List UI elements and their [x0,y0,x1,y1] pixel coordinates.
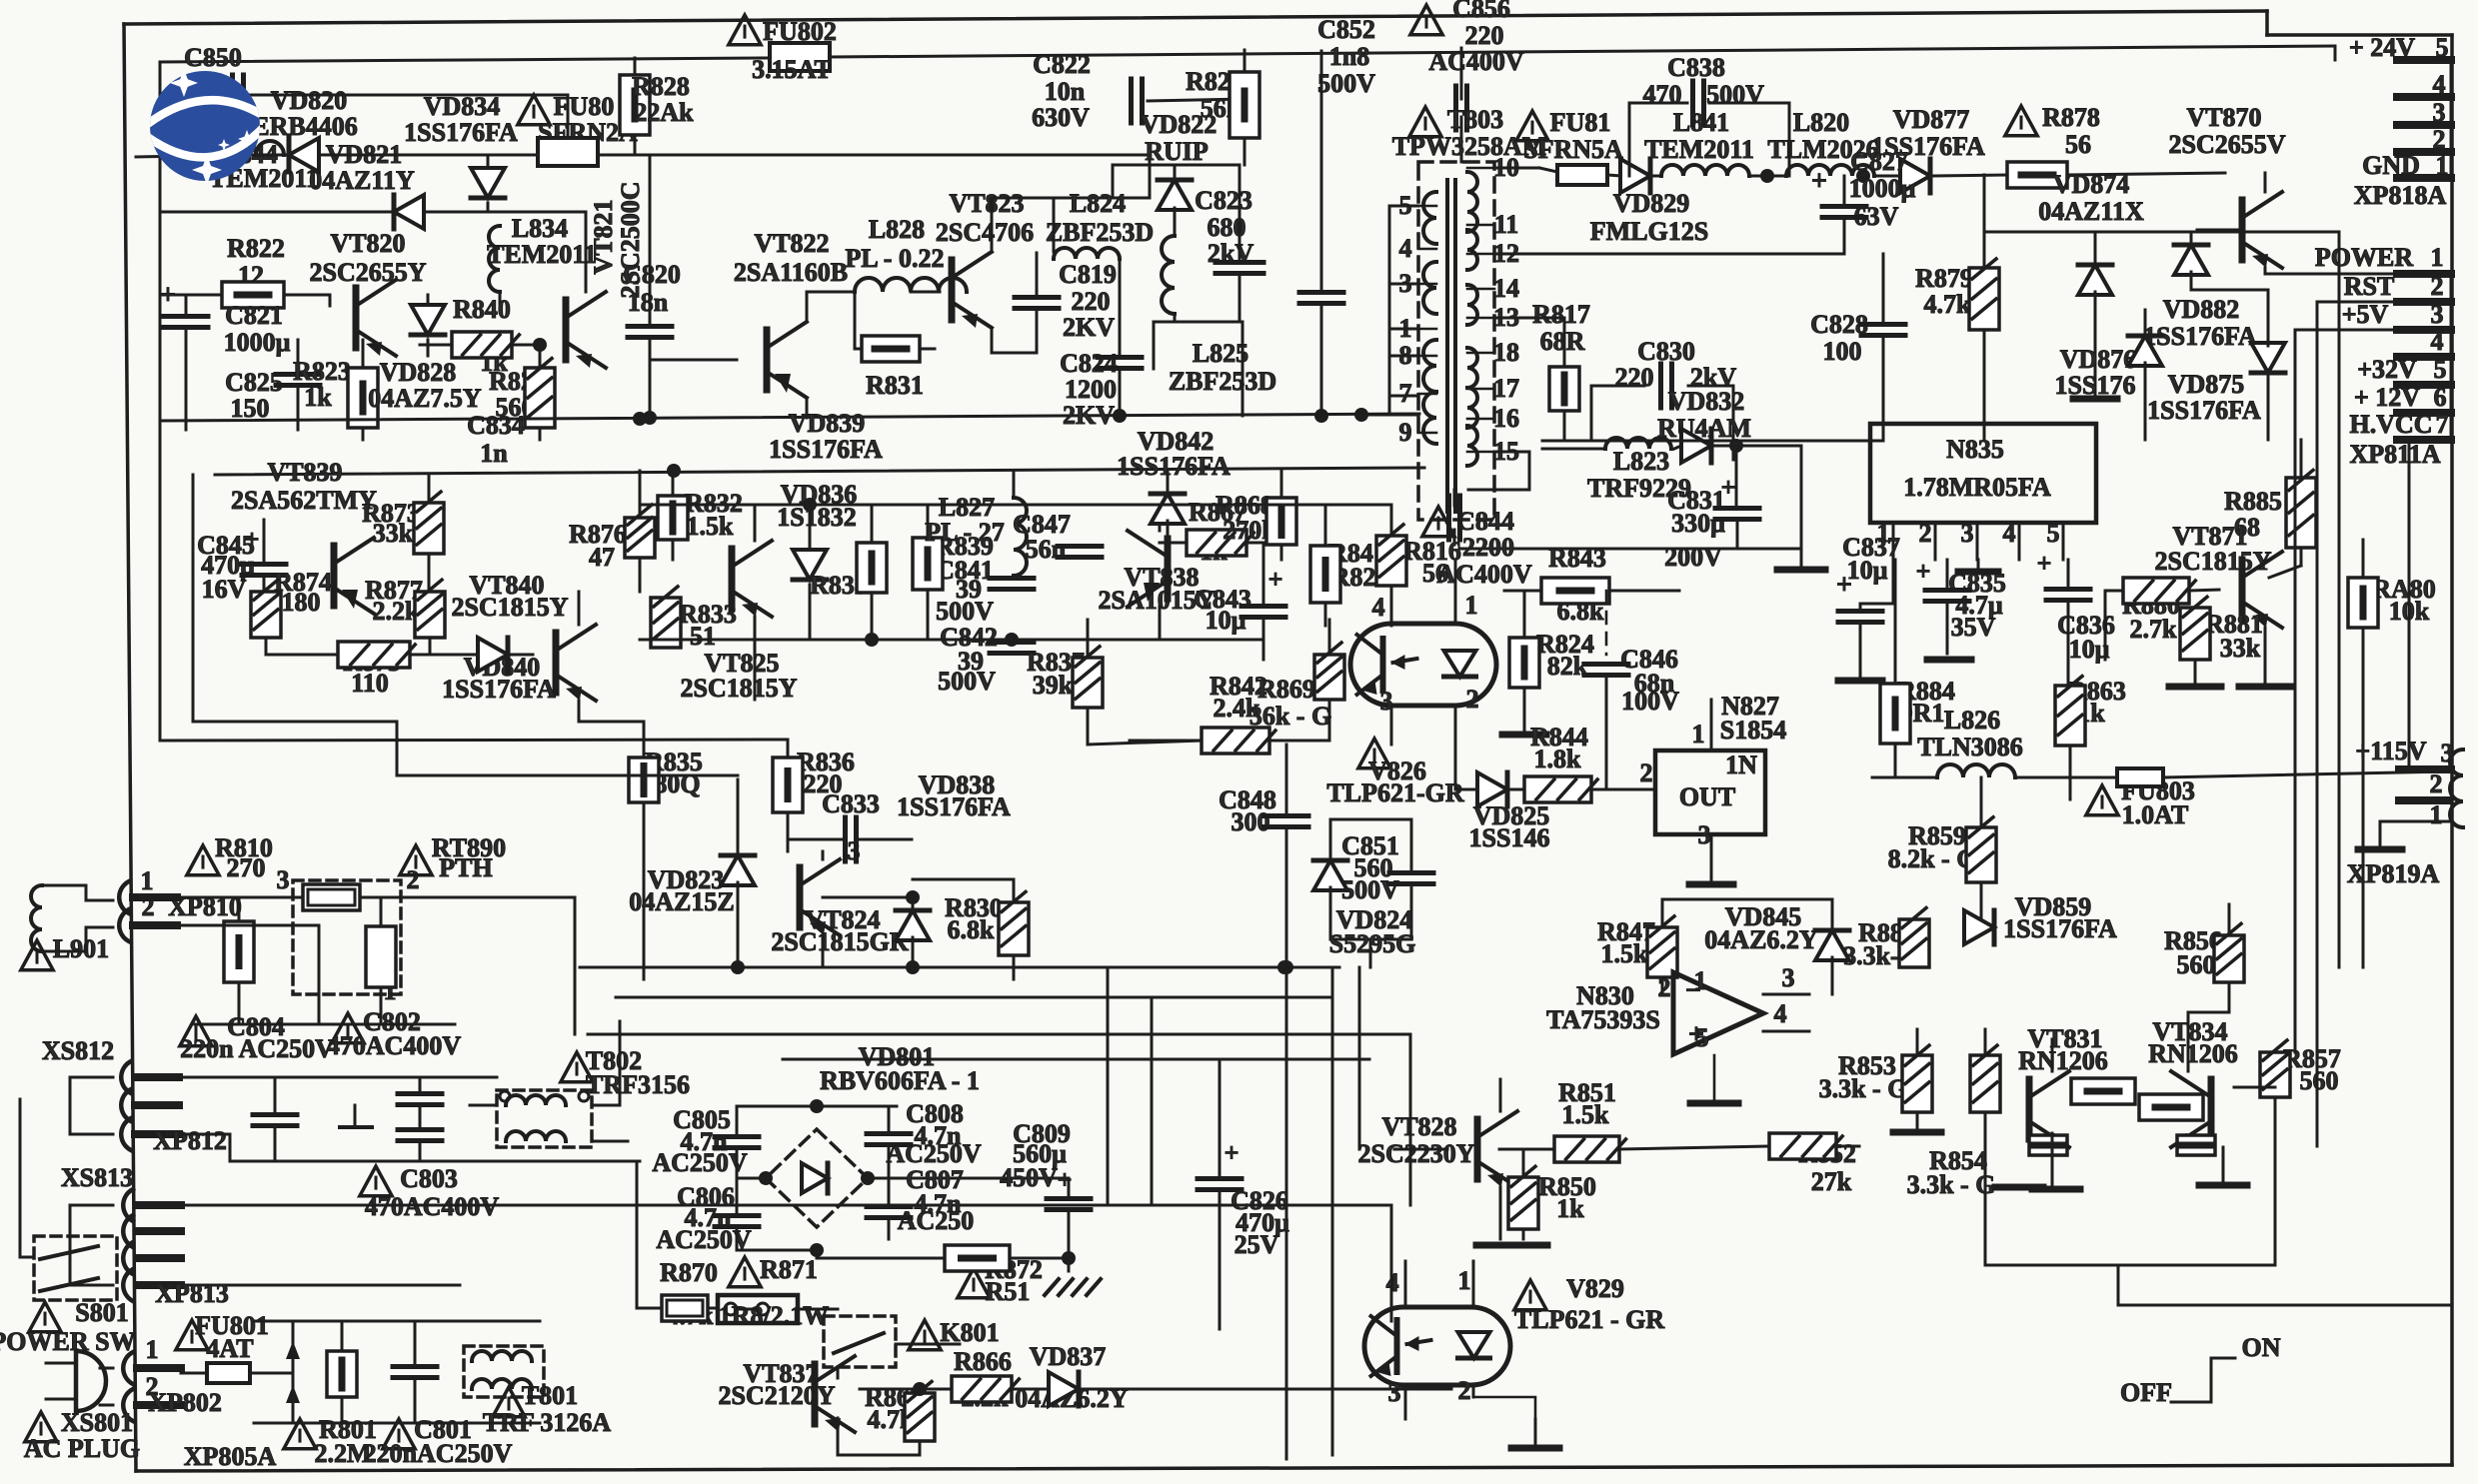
svg-text:4.7k: 4.7k [1924,290,1972,319]
svg-text:OFF: OFF [2120,1378,2172,1407]
svg-text:25V: 25V [1235,1230,1279,1259]
svg-text:1SS176FA: 1SS176FA [769,435,883,464]
svg-text:ON: ON [2242,1333,2281,1362]
svg-text:300: 300 [1232,807,1270,836]
svg-text:R51: R51 [986,1277,1031,1306]
svg-text:PL - 27: PL - 27 [925,518,1004,547]
svg-text:C821: C821 [225,301,283,330]
svg-text:3: 3 [1698,820,1711,849]
svg-text:VT822: VT822 [754,229,829,258]
svg-text:450V: 450V [1000,1163,1058,1192]
svg-text:TEM2011: TEM2011 [487,240,597,269]
svg-text:1.78MR05FA: 1.78MR05FA [1903,473,2051,502]
svg-text:500V: 500V [938,667,996,696]
svg-text:VD837: VD837 [1030,1342,1107,1371]
svg-text:1SS176FA: 1SS176FA [897,792,1011,821]
svg-text:TLP621 - GR: TLP621 - GR [1514,1305,1664,1334]
svg-text:270: 270 [227,853,266,882]
svg-text:4AT: 4AT [206,1334,253,1363]
svg-text:XS812: XS812 [42,1036,114,1065]
svg-text:1200: 1200 [1065,375,1117,404]
svg-text:VD875: VD875 [2168,370,2245,399]
svg-text:+: + [160,280,176,311]
svg-text:XP812: XP812 [153,1126,227,1155]
svg-text:C852: C852 [1317,15,1375,44]
svg-text:R840: R840 [453,295,511,324]
svg-text:C838: C838 [1667,53,1725,82]
svg-text:GND: GND [2362,151,2420,180]
svg-text:2SC2230Y: 2SC2230Y [1357,1139,1474,1168]
svg-text:1k: 1k [1556,1194,1584,1223]
svg-text:1SS176FA: 1SS176FA [404,118,518,147]
svg-text:1n8: 1n8 [1329,42,1369,71]
svg-text:17: 17 [1493,374,1519,403]
svg-text:7: 7 [1399,379,1412,408]
svg-text:2SC2655Y: 2SC2655Y [309,258,426,287]
svg-text:VD839: VD839 [789,409,866,438]
svg-text:11: 11 [1494,210,1519,239]
svg-text:18n: 18n [628,288,669,317]
svg-text:4: 4 [2433,70,2446,99]
svg-text:TEM2011: TEM2011 [1644,135,1754,164]
svg-text:C844: C844 [1456,507,1514,536]
svg-text:+: + [1268,565,1283,594]
svg-text:1: 1 [2431,243,2444,272]
svg-text:VT828: VT828 [1381,1112,1456,1141]
svg-text:VD832: VD832 [1668,387,1745,416]
svg-text:2SC2655V: 2SC2655V [2168,130,2285,159]
svg-text:10μ: 10μ [1847,556,1888,585]
svg-text:56: 56 [1422,559,1448,588]
svg-text:FU81: FU81 [1550,108,1611,137]
svg-text:TLP621-GR: TLP621-GR [1326,778,1463,807]
svg-text:L828: L828 [869,215,925,244]
svg-text:VD828: VD828 [380,358,457,387]
svg-text:3: 3 [1782,963,1795,992]
svg-text:220: 220 [1465,21,1504,50]
svg-text:500V: 500V [1341,875,1399,904]
svg-text:L824: L824 [1070,189,1126,218]
svg-text:C827: C827 [1850,147,1908,176]
svg-text:4: 4 [2431,327,2444,356]
svg-text:220: 220 [1072,287,1111,316]
svg-text:VD877: VD877 [1893,105,1970,134]
svg-text:C822: C822 [1033,50,1091,79]
svg-text:PTH: PTH [439,853,492,882]
svg-text:2: 2 [1640,758,1653,787]
svg-text:500V: 500V [936,597,994,626]
svg-text:+5V: +5V [2342,300,2389,329]
svg-text:VT821: VT821 [589,199,618,274]
svg-text:470AC400V: 470AC400V [327,1031,462,1060]
svg-text:R831: R831 [866,371,924,400]
svg-text:R823: R823 [293,357,351,386]
svg-text:VD829: VD829 [1613,189,1690,218]
svg-text:VD882: VD882 [2163,295,2240,324]
svg-text:FMLG12S: FMLG12S [1590,217,1708,246]
svg-text:S801: S801 [75,1298,128,1327]
svg-text:+ 12V: + 12V [2354,383,2420,412]
svg-text:3.3k - G: 3.3k - G [1907,1170,1996,1199]
svg-text:XP819A: XP819A [2347,859,2440,888]
svg-text:16V: 16V [202,575,247,604]
svg-text:14: 14 [1493,274,1519,303]
svg-text:560: 560 [2300,1066,2339,1095]
svg-text:04AZ11X: 04AZ11X [2038,197,2144,226]
svg-text:L834: L834 [512,214,568,243]
svg-text:C830: C830 [1637,337,1695,366]
svg-text:SFRN5A: SFRN5A [1523,135,1623,164]
svg-text:VD876: VD876 [2060,345,2137,374]
svg-text:C803: C803 [400,1164,458,1193]
svg-text:6.8k: 6.8k [948,915,996,944]
svg-text:R843: R843 [1548,544,1606,573]
svg-text:+: + [1225,1138,1239,1167]
svg-text:8.2k - G: 8.2k - G [1888,844,1977,873]
svg-text:C819: C819 [1059,260,1117,289]
svg-text:68R: 68R [1540,327,1585,356]
svg-text:VD822: VD822 [1141,110,1218,139]
svg-text:33k: 33k [2220,634,2261,663]
svg-text:1: 1 [2436,151,2449,180]
svg-text:C856: C856 [1452,0,1510,23]
svg-text:2200: 2200 [1462,533,1514,562]
svg-text:1000μ: 1000μ [224,328,291,357]
svg-text:1k: 1k [304,383,332,412]
svg-text:R822: R822 [227,234,285,263]
svg-text:7: 7 [2436,410,2449,439]
svg-text:180: 180 [282,588,321,617]
svg-text:2: 2 [2431,272,2444,301]
svg-text:2SA1160B: 2SA1160B [734,258,848,287]
svg-text:1.8k: 1.8k [1534,744,1582,773]
svg-text:3: 3 [2431,300,2444,329]
svg-text:220: 220 [1615,363,1654,392]
svg-text:N835: N835 [1946,435,2004,464]
svg-text:PL - 0.22: PL - 0.22 [846,244,945,273]
svg-text:+: + [245,525,260,554]
svg-text:5: 5 [1696,1023,1709,1052]
svg-text:1S1832: 1S1832 [777,503,856,532]
svg-text:XS813: XS813 [61,1163,133,1192]
svg-text:3: 3 [1388,1378,1401,1407]
svg-text:L901: L901 [53,934,109,963]
svg-text:1000μ: 1000μ [1849,174,1916,203]
svg-text:TA75393S: TA75393S [1546,1005,1660,1034]
svg-text:2KV: 2KV [1063,401,1115,430]
svg-text:33k: 33k [373,519,414,548]
svg-text:470: 470 [1643,80,1682,109]
svg-text:L825: L825 [1193,339,1248,368]
svg-text:680: 680 [1208,213,1246,242]
svg-text:04AZ6.2Y: 04AZ6.2Y [1704,925,1818,954]
svg-text:1SS146: 1SS146 [1469,823,1550,852]
svg-text:R869: R869 [1257,675,1315,704]
svg-text:R878: R878 [2042,103,2100,132]
svg-text:18: 18 [1493,338,1519,367]
svg-text:AC PLUG: AC PLUG [24,1434,140,1463]
svg-text:10μ: 10μ [1206,606,1246,635]
svg-text:R828: R828 [632,72,690,101]
svg-text:POWER: POWER [2315,243,2413,272]
svg-text:5: 5 [2434,355,2447,384]
svg-text:S1854: S1854 [1720,716,1786,744]
svg-text:XP802: XP802 [148,1388,222,1417]
svg-text:R879: R879 [1915,264,1973,293]
svg-text:1: 1 [1458,1266,1471,1295]
svg-text:220n AC250V: 220n AC250V [180,1034,334,1063]
svg-text:VT839: VT839 [267,458,342,487]
svg-text:RN1206: RN1206 [2018,1046,2108,1075]
svg-text:2.7k: 2.7k [2130,615,2178,644]
svg-text:RU4AM: RU4AM [1657,414,1751,443]
svg-text:39k: 39k [1033,671,1074,700]
svg-text:1SS176FA: 1SS176FA [442,675,556,704]
svg-text:51: 51 [690,622,716,651]
svg-text:1: 1 [1465,591,1478,620]
svg-text:100V: 100V [1621,687,1679,716]
svg-text:3: 3 [2433,98,2446,127]
svg-text:T803: T803 [1447,105,1503,134]
svg-text:XP811A: XP811A [2350,440,2441,469]
svg-text:1n: 1n [480,439,508,468]
svg-text:R866: R866 [954,1347,1012,1376]
svg-text:35V: 35V [1951,613,1996,642]
svg-text:330μ: 330μ [1671,509,1725,538]
svg-text:+: + [1836,570,1852,601]
svg-text:RBV606FA - 1: RBV606FA - 1 [820,1066,980,1095]
svg-text:1: 1 [2430,800,2443,829]
svg-text:2: 2 [1919,519,1932,548]
svg-text:AC250: AC250 [898,1206,975,1235]
svg-text:2: 2 [1466,685,1479,714]
svg-text:AC400V: AC400V [1428,47,1524,76]
svg-text:XP818A: XP818A [2354,181,2447,210]
svg-text:VT823: VT823 [949,189,1024,218]
svg-text:C824: C824 [1060,349,1118,378]
svg-text:2SC1815Y: 2SC1815Y [451,593,568,622]
svg-text:AC250V: AC250V [652,1148,748,1177]
svg-text:1: 1 [141,866,154,895]
svg-text:150: 150 [231,394,270,423]
svg-text:XP805A: XP805A [184,1442,277,1471]
svg-text:3: 3 [1961,519,1974,548]
svg-text:R870: R870 [660,1258,718,1287]
svg-text:3: 3 [277,865,290,894]
svg-text:RN1206: RN1206 [2148,1039,2238,1068]
svg-text:1SS176FA: 1SS176FA [2003,914,2117,943]
svg-text:2: 2 [1658,973,1671,1002]
svg-text:100: 100 [1823,337,1862,366]
svg-text:1: 1 [1692,720,1705,748]
svg-text:4: 4 [1399,234,1412,263]
svg-text:R871: R871 [760,1255,818,1284]
svg-text:4: 4 [1774,999,1787,1028]
svg-text:1.5k: 1.5k [1562,1100,1610,1129]
svg-text:VD874: VD874 [2053,170,2130,199]
svg-text:04AZ11Y: 04AZ11Y [309,166,415,195]
svg-text:L823: L823 [1613,447,1669,476]
svg-text:V829: V829 [1566,1274,1624,1303]
svg-text:S5295G: S5295G [1329,929,1416,958]
svg-text:10μ: 10μ [2069,635,2110,664]
svg-text:1.0AT: 1.0AT [2122,800,2189,829]
svg-text:2SC4706: 2SC4706 [936,218,1034,247]
svg-text:47: 47 [589,543,615,572]
svg-text:1: 1 [146,1335,159,1364]
svg-text:+115V: +115V [2355,737,2426,765]
svg-text:5: 5 [2436,33,2449,62]
svg-text:36k - G: 36k - G [1249,702,1331,731]
svg-text:1N: 1N [1725,750,1757,779]
svg-text:2KV: 2KV [1063,313,1115,342]
svg-text:1.5k: 1.5k [687,512,735,541]
svg-text:2: 2 [1458,1376,1471,1405]
svg-text:2.2k: 2.2k [373,597,421,626]
svg-text:2: 2 [2433,125,2446,154]
svg-text:C850: C850 [184,43,242,72]
svg-text:630V: 630V [1032,103,1090,132]
svg-text:+: + [1721,473,1736,502]
svg-text:9: 9 [1399,418,1412,447]
svg-text:500V: 500V [1317,69,1375,98]
svg-text:5: 5 [2047,519,2060,548]
svg-text:+ 24V: + 24V [2349,33,2415,62]
svg-text:C833: C833 [822,789,880,818]
svg-text:1SS176FA: 1SS176FA [2147,396,2261,425]
svg-text:4: 4 [1372,593,1385,622]
svg-text:220nAC250V: 220nAC250V [364,1439,513,1468]
svg-text:04AZ7.5Y: 04AZ7.5Y [368,384,482,413]
svg-text:ERB4406: ERB4406 [252,112,357,141]
svg-text:1SS176: 1SS176 [2055,371,2136,400]
svg-text:200V: 200V [1664,543,1722,572]
svg-text:2: 2 [407,865,420,894]
svg-text:22Ak: 22Ak [634,98,694,127]
svg-text:+: + [1916,557,1931,586]
svg-text:L826: L826 [1944,706,2000,735]
svg-text:110: 110 [351,669,389,698]
svg-text:L820: L820 [1793,108,1849,137]
svg-text:XP813: XP813 [155,1279,229,1308]
svg-text:1.5k: 1.5k [1601,939,1649,968]
svg-text:2SA562TMY: 2SA562TMY [231,486,377,515]
svg-text:16: 16 [1493,404,1519,433]
svg-text:04AZ15Z: 04AZ15Z [629,887,734,916]
svg-text:ZBF253D: ZBF253D [1169,367,1276,396]
svg-text:TRF3156: TRF3156 [586,1070,690,1099]
svg-text:VD820: VD820 [271,86,348,115]
svg-text:XS801: XS801 [61,1408,133,1437]
svg-text:56: 56 [2065,130,2091,159]
svg-text:C834: C834 [467,411,525,440]
svg-text:C823: C823 [1195,186,1252,215]
svg-text:6: 6 [2434,383,2447,412]
svg-text:RUIP: RUIP [1145,137,1209,166]
svg-text:+: + [2037,549,2052,578]
svg-text:500V: 500V [1706,80,1764,109]
svg-text:27k: 27k [1811,1167,1852,1196]
svg-text:1: 1 [1694,966,1707,995]
svg-text:10n: 10n [1045,77,1086,106]
svg-text:RST: RST [2344,272,2395,301]
svg-text:ZBF253D: ZBF253D [1046,218,1154,247]
svg-text:2SC1815Y: 2SC1815Y [680,674,797,703]
svg-text:2: 2 [2430,769,2443,798]
svg-text:560: 560 [2177,950,2216,979]
svg-text:+32V: +32V [2357,355,2417,384]
svg-text:R817: R817 [1532,300,1590,329]
svg-text:4: 4 [2003,519,2016,548]
svg-text:C820: C820 [623,260,681,289]
svg-text:3.15AT: 3.15AT [752,55,832,84]
svg-text:1SS176FA: 1SS176FA [1117,452,1231,481]
svg-text:3.3k - G: 3.3k - G [1819,1074,1908,1103]
svg-text:2SC1815GR: 2SC1815GR [771,927,908,956]
svg-text:OUT: OUT [1679,782,1735,811]
svg-text:+: + [1811,166,1827,197]
svg-text:R885: R885 [2224,487,2282,516]
svg-text:TLN3086: TLN3086 [1917,733,2022,761]
svg-text:POWER SW: POWER SW [0,1327,136,1356]
svg-text:VT820: VT820 [330,229,405,258]
svg-text:VT870: VT870 [2186,103,2261,132]
svg-text:H.VCC: H.VCC [2349,410,2432,439]
svg-text:FU802: FU802 [763,17,837,46]
